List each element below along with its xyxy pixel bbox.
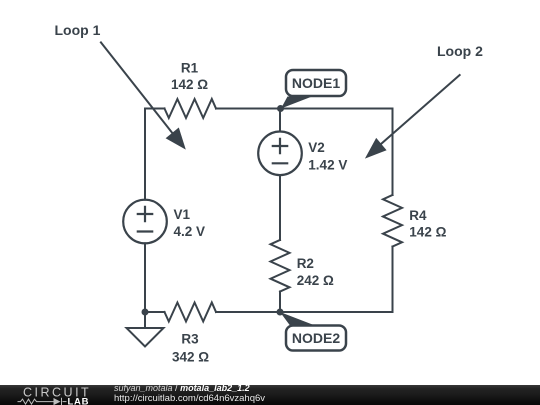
resistor R1 [165, 99, 217, 118]
svg-text:142 Ω: 142 Ω [409, 225, 446, 240]
wire middle vertical lower [279, 292, 281, 313]
svg-text:LAB: LAB [68, 396, 90, 405]
wire bottom-right horizontal segment [216, 311, 393, 313]
svg-text:4.2 V: 4.2 V [174, 224, 206, 239]
svg-text:142 Ω: 142 Ω [171, 77, 208, 92]
svg-text:NODE1: NODE1 [292, 75, 340, 91]
svg-text:NODE2: NODE2 [292, 330, 340, 346]
label R3 value [172, 332, 209, 365]
wire bottom-left horizontal segment [145, 311, 165, 313]
annotation Loop 2 [365, 43, 483, 159]
svg-text:Loop 1: Loop 1 [55, 22, 101, 38]
svg-text:V2: V2 [308, 140, 325, 155]
node NODE1 callout [281, 70, 346, 109]
node NODE2 junction dot [277, 309, 284, 316]
wire left vertical lower [144, 243, 146, 312]
logo CircuitLab [0, 385, 110, 405]
wire top-right horizontal segment [216, 108, 393, 110]
label R1 value [171, 61, 208, 93]
voltage source V2 [258, 132, 302, 176]
resistor R3 [165, 303, 217, 322]
wire right vertical upper [392, 109, 394, 196]
svg-text:342 Ω: 342 Ω [172, 350, 209, 365]
svg-text:242 Ω: 242 Ω [297, 273, 334, 288]
wire middle vertical middle [279, 175, 281, 240]
label R2 value [297, 256, 334, 288]
wire top-left horizontal segment [145, 108, 165, 110]
label V2 value [308, 140, 347, 172]
node NODE1 junction dot [277, 105, 284, 112]
wire right vertical lower [392, 247, 394, 313]
annotation Loop 1 [55, 22, 186, 149]
footer bar [0, 385, 540, 405]
svg-text:R1: R1 [181, 61, 199, 76]
node ground junction dot [142, 309, 149, 316]
svg-text:V1: V1 [174, 207, 191, 222]
ground [127, 312, 164, 347]
voltage source V1 [123, 200, 167, 244]
wire left vertical upper [144, 109, 146, 200]
wire middle vertical upper [279, 109, 281, 132]
svg-text:1.42 V: 1.42 V [308, 157, 347, 172]
footer attribution text [114, 382, 250, 394]
svg-text:Loop 2: Loop 2 [437, 43, 483, 59]
svg-text:R3: R3 [181, 332, 199, 347]
label V1 value [174, 207, 206, 239]
node NODE2 callout [280, 312, 346, 351]
resistor R2 [271, 240, 290, 292]
svg-text:R2: R2 [297, 256, 314, 271]
label R4 value [409, 208, 446, 240]
svg-text:R4: R4 [409, 208, 427, 223]
resistor R4 [383, 195, 402, 247]
